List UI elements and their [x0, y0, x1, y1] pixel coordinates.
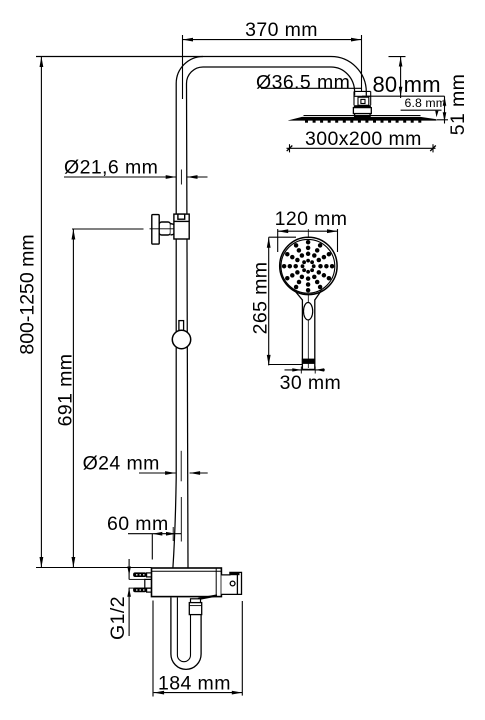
wire riser pipe right edge [187, 84, 189, 569]
head connector cup [354, 91, 371, 105]
hose outer curve [171, 598, 201, 670]
dimension 300x200 mm [287, 144, 436, 152]
head connector nut [353, 108, 371, 114]
wire 6.8 underline [401, 109, 442, 111]
svg-text:691 mm: 691 mm [55, 354, 77, 427]
mixer handle dark top [230, 572, 240, 575]
wire arm left inner curve [187, 67, 204, 84]
svg-text:370 mm: 370 mm [245, 19, 318, 41]
dimension G1/2 [127, 559, 145, 636]
svg-text:60 mm: 60 mm [107, 513, 169, 535]
wire 6.8 pointer arrow [435, 111, 438, 118]
hose inner curve [177, 598, 190, 662]
rain shower plate [288, 117, 436, 121]
dimension 265 mm [267, 237, 302, 365]
svg-text:Ø24 mm: Ø24 mm [83, 453, 160, 475]
dimension 370 mm [183, 35, 362, 99]
svg-text:Ø21,6 mm: Ø21,6 mm [64, 157, 158, 179]
hand shower face dots [282, 240, 335, 293]
wall connection plate [145, 579, 152, 588]
wire arm right outer curve [331, 57, 366, 96]
wire arm right inner curve [331, 67, 355, 96]
svg-text:51 mm: 51 mm [447, 74, 469, 136]
wire riser pipe left edge [173, 84, 176, 569]
wall bracket cylinder [159, 222, 170, 235]
slider circle [172, 330, 190, 348]
wall bracket body on pipe [174, 214, 189, 239]
dimension D21.6 mm [64, 170, 208, 185]
dimension 30 mm [285, 367, 326, 374]
hose connector [191, 599, 201, 603]
dimension 184 mm [153, 601, 242, 697]
wire bottom extension line [36, 567, 152, 569]
rain shower plate top edge [304, 115, 421, 117]
wire 6.8 leader top line [362, 95, 445, 97]
wall stub dots [136, 574, 145, 590]
mixer body [152, 568, 222, 597]
svg-text:800-1250 mm: 800-1250 mm [17, 234, 39, 354]
wall connection stub bottom [133, 588, 147, 593]
wire O36.5 leader underline [261, 87, 361, 89]
wall connection stub top [133, 572, 147, 577]
mixer handle right [221, 572, 241, 594]
mixer handle circle [230, 581, 235, 586]
dimension 691 mm [72, 229, 144, 568]
wire arm bottom edge [203, 66, 331, 68]
hand shower button [304, 303, 313, 320]
svg-text:80 mm: 80 mm [373, 72, 441, 97]
hand shower black band [302, 359, 315, 364]
dimension 120 mm [278, 229, 338, 252]
mixer body right inner line [215, 568, 217, 597]
dimension 51 mm [437, 96, 448, 123]
hand shower outer circle [280, 237, 337, 294]
mixer bottom slant detail [198, 595, 217, 599]
hand shower handle [302, 300, 314, 370]
dimension 800-1250 mm [40, 57, 44, 568]
wall bracket centerline [150, 228, 177, 230]
wall bracket knob [152, 215, 159, 245]
mixer body top inner line [152, 570, 222, 572]
svg-text:120 mm: 120 mm [275, 208, 348, 230]
dimension D24 mm [139, 451, 208, 482]
svg-text:Ø36.5 mm: Ø36.5 mm [256, 71, 350, 93]
dimension 60 mm [128, 497, 181, 560]
hand shower neck [295, 290, 322, 300]
wire arm left outer curve [176, 57, 203, 84]
svg-text:184 mm: 184 mm [158, 673, 231, 695]
wire top extension line / arm top edge [36, 56, 331, 58]
svg-text:265 mm: 265 mm [249, 262, 271, 335]
head connector flange [355, 114, 371, 117]
svg-text:300x200 mm: 300x200 mm [305, 128, 422, 150]
svg-text:30 mm: 30 mm [280, 372, 342, 394]
svg-text:6.8 mm: 6.8 mm [405, 96, 447, 110]
wall bracket nose [171, 224, 177, 235]
hand shower centerline [307, 229, 309, 368]
slider stub [179, 321, 184, 331]
head connector dark band [354, 105, 371, 107]
hand shower face circle [281, 239, 335, 293]
dimension 80 mm [389, 57, 406, 98]
svg-text:G1/2: G1/2 [107, 596, 129, 640]
rain shower nozzles [305, 120, 421, 122]
